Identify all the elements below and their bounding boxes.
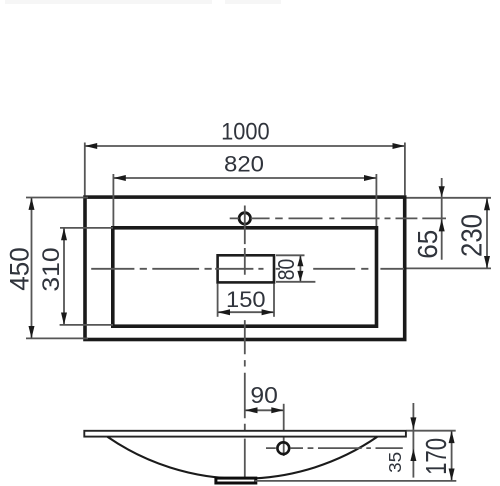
svg-text:170: 170 [421,438,453,475]
dim 35 lower arrowhead (up) [410,449,416,461]
drain circle (section view) [277,442,289,454]
dim 170 dimension line [451,431,453,481]
svg-text:35: 35 [385,452,405,473]
dim 450 top arrowhead [29,198,35,210]
dim 1000 right extension line [404,143,406,196]
dim 80 bottom arrowhead [297,271,303,282]
dim 80 top extension line [276,254,305,256]
svg-text:65: 65 [412,230,443,259]
svg-text:80: 80 [273,259,299,281]
dim 820 right extension line [375,174,377,226]
svg-text:230: 230 [457,214,489,257]
drain horizontal centerline (section view) [266,447,403,449]
faint cropped text top bar 2 [225,0,281,4]
dim 450 bottom arrowhead [29,326,35,338]
dim 150 right arrowhead [262,309,274,315]
dim 820 right arrowhead [364,175,376,181]
overflow rectangle (plan view) [218,255,274,282]
svg-text:310: 310 [39,247,65,291]
dim 230 top extension line [407,197,492,199]
dim 90 left arrowhead [245,407,257,413]
dim 80 label backing [281,257,297,281]
dim 150 right extension line [273,284,275,317]
dim 65 lower arrowhead (up) [439,219,445,231]
horizontal centerline of basin [91,268,404,270]
dim 65 upper arrowhead (down) [439,186,445,197]
dim 90 right extension line [283,404,285,456]
svg-text:450: 450 [5,247,35,291]
dim 90 right arrowhead [271,407,283,413]
dim 310 top arrowhead [61,228,67,240]
countertop slab (section view) [84,431,406,437]
dim 450 top extension line [26,197,88,199]
dim 1000 left extension line [84,143,86,196]
dim 450 bottom extension line [26,337,88,339]
vertical centerline through tap hole and drain [244,206,246,478]
dim 230 dimension line [486,198,488,269]
dim 310 dimension line [63,228,65,325]
dim 1000 left arrowhead [85,143,97,149]
dim 35 upper pointer line [412,403,414,478]
svg-text:820: 820 [224,151,264,176]
tap hole horizontal centerline [230,217,446,219]
tap hole circle (plan view) [239,213,250,224]
dim 1000 right arrowhead [393,143,405,149]
dim 820 left extension line [112,174,114,226]
dim 170 bottom arrowhead [449,469,455,481]
dim 310 bottom arrowhead [61,313,67,325]
dim 820 left arrowhead [113,175,125,181]
dim 310 top extension line [60,227,113,229]
svg-text:90: 90 [250,382,278,408]
svg-text:1000: 1000 [221,119,270,146]
dim 150 left extension line [217,284,219,317]
dim 170 top arrowhead [449,431,455,443]
dim 450 dimension line [31,198,33,339]
dim 150 dimension line [218,311,274,313]
dim 80 dimension line [299,255,301,281]
dim 170 top extension line [407,430,456,432]
drain outlet stub (section view) [216,478,256,483]
dim 150 left arrowhead [218,309,230,315]
basin bowl curve (section view) [107,437,377,479]
dim 90 dimension line [245,409,284,411]
dim 65 upper pointer line [441,178,443,260]
dim 80 top arrowhead [297,255,303,266]
basin inner rectangle (plan view) [113,228,377,326]
dim 1000 dimension line [85,145,405,147]
dim 80 bottom extension line [276,281,315,283]
dim 230 top arrowhead [484,198,490,210]
dim 35 upper arrowhead (down) [410,417,416,429]
dim 820 dimension line [113,177,376,179]
svg-text:150: 150 [226,287,266,312]
dim 170 bottom extension line [255,480,456,482]
faint cropped text top bar 1 [5,0,212,4]
dim 310 bottom extension line [60,324,113,326]
dim 230 bottom extension line [407,267,492,269]
washbasin outer rectangle (plan view) [85,197,405,339]
dim 230 bottom arrowhead [484,256,490,268]
